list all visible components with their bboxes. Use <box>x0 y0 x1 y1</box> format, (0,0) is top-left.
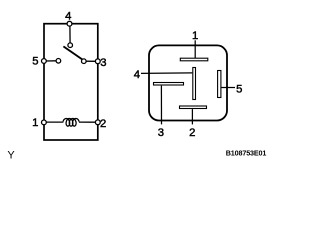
figure number B108753E01 <box>226 148 267 157</box>
wire from terminal 1 to coil <box>46 121 63 123</box>
svg-text:2: 2 <box>100 118 106 130</box>
svg-text:B108753E01: B108753E01 <box>226 148 267 157</box>
pin 2 slot (bottom horizontal) <box>180 106 207 109</box>
svg-text:4: 4 <box>65 11 71 23</box>
pin 2 leader line <box>191 109 193 124</box>
pin 3 slot (left horizontal) <box>154 83 184 86</box>
switch lever (movable contact arm) <box>63 46 84 60</box>
relay connector housing (pin side view) <box>149 45 227 120</box>
pin 4 leader line <box>141 72 192 75</box>
terminal 3 label <box>100 57 106 69</box>
pin 1 slot <box>180 58 208 61</box>
svg-text:1: 1 <box>192 30 198 42</box>
svg-text:4: 4 <box>134 69 140 81</box>
coil L1 (relay winding) <box>63 119 79 127</box>
pin 5 leader line <box>221 87 235 89</box>
terminal 2 label <box>100 118 106 130</box>
svg-text:5: 5 <box>32 55 38 67</box>
figure key letter Y <box>7 150 15 162</box>
svg-text:2: 2 <box>189 127 195 139</box>
wire from terminal 4 to switch pivot <box>69 26 71 44</box>
terminal 5 (left) <box>42 59 47 64</box>
wire from contact to terminal 3 <box>86 60 96 62</box>
fixed contact node (terminal 3 side) <box>82 59 87 64</box>
terminal 4 label <box>65 11 71 23</box>
wire from coil to terminal 2 <box>79 121 96 123</box>
pin 3 leader line <box>160 86 162 125</box>
svg-text:1: 1 <box>32 117 38 129</box>
pin 5 slot (right vertical) <box>218 71 221 98</box>
wire from terminal 5 to fixed contact <box>46 60 57 62</box>
pin 2 label <box>189 127 195 139</box>
pin 3 label <box>158 127 164 139</box>
pin 4 label <box>134 69 140 81</box>
terminal 1 label <box>32 117 38 129</box>
pin 1 label <box>192 30 198 42</box>
svg-text:3: 3 <box>158 127 164 139</box>
switch pivot node <box>68 43 73 48</box>
svg-text:5: 5 <box>236 83 242 95</box>
svg-text:Y: Y <box>7 150 15 162</box>
terminal 1 (bottom left) <box>42 120 47 125</box>
fixed contact node (terminal 5 side) <box>56 59 61 64</box>
svg-text:3: 3 <box>100 57 106 69</box>
terminal 5 label <box>32 55 38 67</box>
terminal 4 (top) <box>67 21 72 26</box>
terminal 3 (right) <box>95 59 100 64</box>
relay K1 internal schematic enclosure box <box>44 24 98 140</box>
pin 5 label <box>236 83 242 95</box>
terminal 2 (bottom right) <box>95 120 100 125</box>
pin 4 slot (center vertical) <box>193 68 196 100</box>
pin 1 leader line <box>194 40 196 58</box>
